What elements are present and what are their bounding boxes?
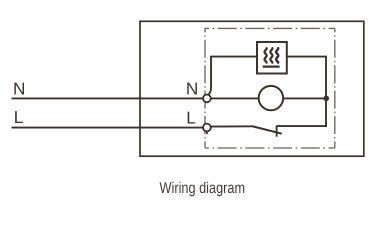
switch S1 fixed contact bar [276,126,278,137]
dash-dot appliance boundary left [204,28,206,148]
motor M letter [276,48,278,62]
switch S1 lead to right bus [277,125,327,127]
heater underline [263,65,280,67]
heater squiggle 3 [276,48,278,62]
terminal L circle [203,124,211,132]
dash-dot appliance boundary right [334,28,336,148]
wire heater branch left riser [208,57,212,96]
svg-text:N: N [13,79,25,99]
outer solid enclosure box [140,21,364,156]
svg-text:L: L [186,107,196,127]
wire N supply (outside) [12,97,204,99]
junction dot node [324,96,330,102]
wire N motor line (inside) [211,97,327,99]
dash-dot appliance boundary bottom [205,147,335,149]
heater squiggle 1 [265,48,267,62]
terminal L lower stub [206,131,208,134]
wire heater branch top right [287,56,327,58]
dash-dot appliance boundary top [205,27,335,29]
heater element E1 box [257,42,287,74]
svg-text:L: L [14,107,24,127]
wire heater branch top left [210,56,256,58]
svg-text:N: N [186,79,198,99]
motor M1 circle [259,86,283,110]
svg-text:Wiring diagram: Wiring diagram [160,180,246,197]
heater squiggle 2 [270,48,272,62]
wire right bus riser [325,56,327,127]
wire L supply (outside) [12,127,204,129]
terminal N circle [203,95,211,103]
switch S1 blade (open) [252,126,282,134]
switch S1 lead from L terminal [211,125,253,127]
